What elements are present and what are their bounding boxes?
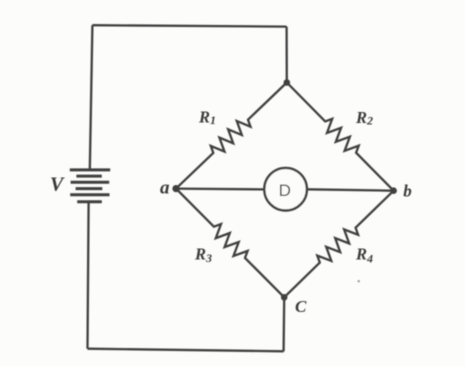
- svg-text:R4: R4: [355, 245, 373, 266]
- wire: battery - down to bottom-left corner: [88, 202, 89, 349]
- wire: detector D to node b: [307, 189, 394, 190]
- resistor R1: [176, 83, 287, 189]
- node: top junction: [284, 79, 291, 86]
- node a: [172, 185, 179, 192]
- battery V: [70, 170, 110, 202]
- wire: left vertical to battery +: [90, 25, 93, 170]
- detector D: [264, 168, 307, 211]
- wire: node a to detector D: [176, 187, 264, 190]
- resistor R3: [176, 189, 284, 298]
- wire: vertical up to node C: [282, 297, 285, 351]
- svg-text:R2: R2: [355, 108, 373, 128]
- svg-text:R1: R1: [198, 107, 216, 127]
- node b: [390, 187, 397, 194]
- wire: vertical down to bridge top node: [285, 27, 287, 83]
- node C junction: [281, 294, 288, 301]
- speck artifact: [358, 280, 360, 282]
- svg-text:a: a: [160, 178, 170, 199]
- resistor R4: [284, 191, 393, 298]
- resistor R2: [287, 83, 394, 191]
- svg-text:C: C: [295, 297, 307, 316]
- svg-text:D: D: [279, 181, 291, 200]
- wire: bottom horizontal: [88, 349, 284, 352]
- svg-text:b: b: [403, 182, 412, 201]
- svg-text:R3: R3: [194, 244, 212, 265]
- wire: top horizontal: [92, 25, 286, 26]
- svg-text:V: V: [50, 174, 65, 196]
